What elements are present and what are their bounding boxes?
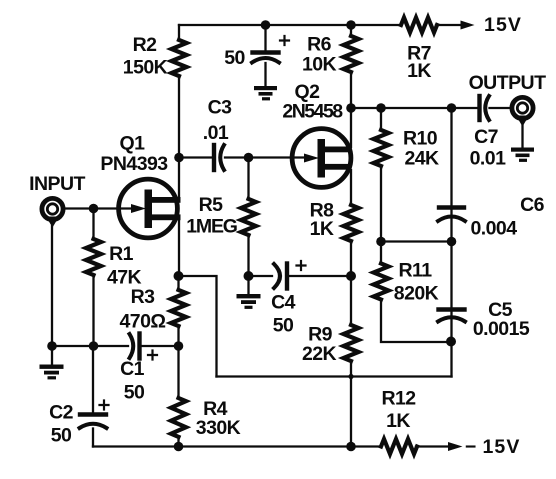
svg-text:R10: R10 bbox=[403, 128, 438, 150]
resistor R6 10K (vertical) bbox=[344, 36, 359, 72]
input jack J1 bbox=[42, 198, 63, 365]
capacitor C3 .01 (horizontal, interstage coupling) bbox=[212, 145, 216, 170]
junction node B: Q1 source / R3 / feedback bbox=[174, 271, 184, 281]
svg-text:2N5458: 2N5458 bbox=[282, 101, 343, 123]
resistor R1 47K (vertical) bbox=[86, 239, 101, 275]
junction node E row right / C5 top bbox=[447, 237, 457, 247]
junction Q2 gate / C3 / R5 bbox=[244, 153, 254, 163]
svg-text:50: 50 bbox=[124, 382, 145, 404]
svg-text:1K: 1K bbox=[407, 60, 431, 82]
junction node C: R8 / C4 / R9 bbox=[346, 271, 356, 281]
capacitor C5 0.0015 (vertical) bbox=[439, 307, 465, 311]
junction node F: R3 / R4 / C1 bbox=[174, 341, 184, 351]
svg-text:R6: R6 bbox=[307, 34, 332, 56]
junction node D: R5 / C4 / ground bbox=[244, 271, 254, 281]
junction R4 bottom / -15V rail bbox=[174, 442, 184, 452]
svg-text:1MEG: 1MEG bbox=[186, 216, 236, 238]
svg-text:R11: R11 bbox=[398, 260, 432, 282]
wire Q2 source lead down to R8 bbox=[350, 170, 352, 205]
junction R9 bottom / -15V rail bbox=[346, 442, 356, 452]
capacitor C2 50uF (vertical, polarized) bbox=[80, 412, 106, 416]
svg-text:0.01: 0.01 bbox=[470, 148, 506, 170]
junction R9 / feedback run crossing bbox=[348, 374, 353, 379]
svg-text:Q1: Q1 bbox=[120, 133, 146, 155]
svg-text:R12: R12 bbox=[381, 388, 416, 410]
svg-text:1K: 1K bbox=[386, 410, 410, 432]
junction R6 / top rail bbox=[346, 20, 356, 30]
svg-text:470Ω: 470Ω bbox=[120, 311, 166, 333]
transistor Q2 2N5458 (N-channel JFET) bbox=[292, 129, 351, 188]
wire output node row from Q2 drain to C7 bbox=[351, 107, 478, 109]
wire feedback: node B right then down bbox=[179, 276, 217, 377]
plus sign of C4 bbox=[297, 261, 306, 270]
wire Q2 drain lead bbox=[350, 108, 352, 147]
svg-text:R5: R5 bbox=[199, 194, 224, 216]
resistor R7 1K (horizontal, in top rail) bbox=[401, 18, 437, 33]
wire ground row to C1 bbox=[52, 345, 128, 347]
svg-text:330K: 330K bbox=[196, 417, 241, 439]
wire node A to C3 bbox=[179, 156, 212, 158]
resistor R9 22K (vertical) bbox=[344, 325, 359, 361]
transistor Q1 PN4393 (N-channel JFET) bbox=[119, 179, 181, 238]
svg-text:50: 50 bbox=[224, 47, 245, 69]
svg-text:− 15V: − 15V bbox=[465, 436, 521, 458]
wire node C down to R9 bbox=[350, 276, 352, 325]
junction input / R1 top bbox=[89, 204, 99, 214]
wire C2 top lead from R1 bottom node bbox=[92, 346, 94, 412]
svg-text:0.004: 0.004 bbox=[470, 218, 517, 240]
wire R5 top lead from Q2 gate node bbox=[247, 158, 249, 200]
wire R2 bottom down to node A (drain of Q1 / C3) bbox=[178, 76, 180, 158]
junction R10 top / output row bbox=[376, 103, 386, 113]
wire +15V top rail, segment from R7 to arrow bbox=[436, 24, 462, 26]
resistor R4 330K (vertical) with leads bbox=[177, 346, 179, 398]
wire R10 top lead from output node bbox=[380, 108, 382, 130]
output jack J2 bbox=[512, 97, 533, 148]
plus sign of C1 bbox=[148, 351, 157, 360]
capacitor C4 50uF (horizontal, polarized source bypass) bbox=[274, 264, 280, 288]
wire +15V top rail, left segment from R2 corner to R7 bbox=[179, 24, 401, 26]
wire R1 top lead from input node bbox=[92, 209, 94, 240]
wire C6 top lead from output node bbox=[450, 108, 452, 242]
arrow to -15V supply bbox=[448, 442, 463, 451]
wire C5 bottom to feedback corner bbox=[450, 342, 452, 377]
svg-text:50: 50 bbox=[51, 425, 72, 447]
svg-text:INPUT: INPUT bbox=[29, 173, 85, 195]
wire R6 top lead from rail bbox=[350, 25, 352, 36]
resistor R12 1K (horizontal, in -15V rail) bbox=[381, 439, 417, 454]
junction node E: R10 / C6 row left bbox=[376, 237, 386, 247]
junction bypass cap / top rail bbox=[261, 20, 271, 30]
wire R1 bottom lead to ground row bbox=[92, 275, 94, 346]
svg-text:R1: R1 bbox=[109, 243, 134, 265]
svg-text:OUTPUT: OUTPUT bbox=[469, 72, 547, 94]
svg-text:PN4393: PN4393 bbox=[100, 153, 168, 175]
ground under bypass cap 50uF bbox=[254, 86, 277, 100]
svg-text:C7: C7 bbox=[474, 126, 498, 148]
wire R11 bottom lead and run to C5 bottom node bbox=[381, 300, 451, 343]
svg-text:150K: 150K bbox=[123, 57, 168, 79]
wire Q1 drain lead up to node A bbox=[178, 158, 180, 201]
svg-text:24K: 24K bbox=[404, 148, 439, 170]
svg-text:C4: C4 bbox=[271, 292, 296, 314]
plus sign of C2 bbox=[100, 401, 109, 410]
svg-text:R2: R2 bbox=[133, 34, 158, 56]
wire R10 bottom to node E bbox=[380, 166, 382, 242]
wire C5 top lead from node E row bbox=[450, 242, 452, 342]
svg-text:C1: C1 bbox=[120, 358, 145, 380]
svg-text:0.0015: 0.0015 bbox=[473, 318, 530, 340]
arrow to +15V supply bbox=[461, 21, 475, 30]
resistor R5 1MEG (vertical) bbox=[241, 199, 256, 235]
junction node A: R2 / Q1 drain / C3 bbox=[174, 153, 184, 163]
svg-text:820K: 820K bbox=[394, 283, 439, 305]
wire R12 to arrow bbox=[416, 445, 449, 447]
wire -15V bottom rail from C2 corner to R12 bbox=[93, 445, 381, 447]
ground under output jack bbox=[511, 148, 534, 162]
wire C7 to output jack bbox=[490, 107, 512, 109]
resistor R10 24K (vertical) bbox=[374, 130, 389, 166]
svg-text:R3: R3 bbox=[131, 286, 156, 308]
capacitor C1 50uF (horizontal, polarized) bbox=[130, 334, 134, 358]
svg-text:50: 50 bbox=[273, 315, 294, 337]
svg-text:C6: C6 bbox=[520, 194, 545, 216]
wire bypass cap (50uF) top lead from rail bbox=[264, 25, 266, 50]
plus sign of bypass cap 50uF bbox=[280, 36, 289, 45]
junction C6 top / output row bbox=[447, 103, 457, 113]
resistor R2 150K (vertical) bbox=[172, 40, 187, 76]
wire C4 to node C bbox=[288, 275, 351, 277]
junction C5 bottom / R11 bottom bbox=[446, 337, 456, 347]
wire R8 bottom to node C bbox=[350, 241, 352, 276]
junction input shield / ground row bbox=[47, 341, 57, 351]
wire node E row to C6 bottom bbox=[381, 240, 452, 242]
capacitor 50uF supply bypass (polarized, vertical) bbox=[253, 50, 279, 54]
svg-text:C2: C2 bbox=[49, 402, 74, 424]
wire C1 to node F (R3/R4 junction) bbox=[141, 345, 179, 347]
ground under node D bbox=[237, 294, 261, 309]
wire node D to C4 bbox=[249, 275, 273, 277]
wire Q2 gate lead bbox=[249, 156, 306, 158]
junction Q2 drain / R6 / output row bbox=[346, 103, 356, 113]
resistor R11 820K (vertical) bbox=[374, 264, 389, 300]
wire feedback bottom run to C5/R11 node bbox=[217, 375, 452, 377]
svg-text:10K: 10K bbox=[302, 54, 337, 76]
svg-text:.01: .01 bbox=[203, 122, 229, 144]
svg-text:22K: 22K bbox=[302, 343, 337, 365]
wire R9 bottom down to -15V rail bbox=[350, 361, 352, 447]
svg-text:1K: 1K bbox=[310, 218, 334, 240]
svg-text:C3: C3 bbox=[208, 97, 233, 119]
capacitor C6 0.004 (vertical) bbox=[439, 205, 464, 209]
wire R6 bottom to Q2 drain node bbox=[350, 72, 352, 108]
wire C3 to Q2 gate node bbox=[225, 156, 249, 158]
resistor R3 470ohm (vertical) with leads bbox=[177, 276, 179, 290]
wire Q1 source lead down to node B bbox=[178, 217, 180, 276]
wire R5 bottom lead to grounded node D bbox=[247, 235, 249, 295]
wire R11 top lead from node E bbox=[380, 242, 382, 264]
wire input jack to Q1 gate bbox=[65, 207, 131, 209]
junction R1 bottom / C2 top bbox=[89, 341, 99, 351]
ground under input jack shield bbox=[40, 365, 64, 380]
wire R2 top lead from rail corner bbox=[178, 25, 180, 40]
capacitor C7 0.01 (horizontal, output coupling) bbox=[477, 96, 481, 120]
svg-text:15V: 15V bbox=[484, 14, 522, 36]
resistor R8 1K (vertical) bbox=[344, 205, 359, 241]
